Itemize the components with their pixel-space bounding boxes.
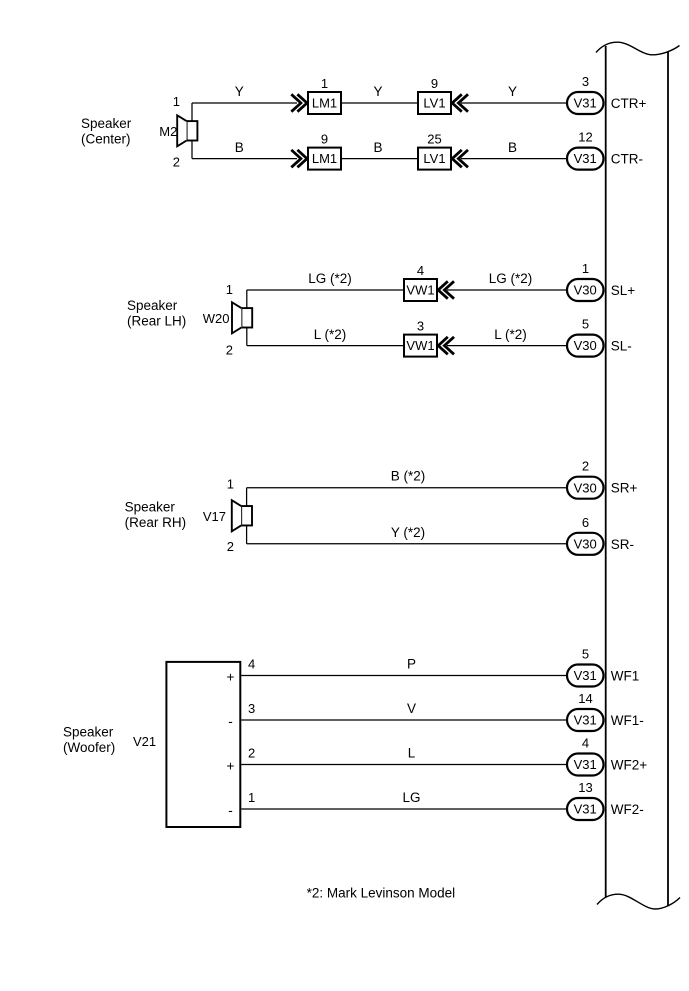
svg-text:-: -	[228, 714, 233, 729]
svg-text:LG: LG	[402, 790, 420, 805]
svg-text:V30: V30	[574, 338, 597, 353]
svg-text:SL-: SL-	[611, 339, 632, 354]
svg-text:WF1-: WF1-	[611, 713, 644, 728]
svg-text:*2: Mark Levinson Model: *2: Mark Levinson Model	[307, 886, 456, 901]
svg-text:V17: V17	[203, 509, 226, 524]
svg-text:LG (*2): LG (*2)	[489, 271, 533, 286]
svg-text:W20: W20	[203, 311, 230, 326]
connector LM1 chevrons (male)	[291, 94, 301, 111]
svg-text:Y (*2): Y (*2)	[391, 525, 425, 540]
svg-text:(Rear LH): (Rear LH)	[127, 314, 186, 329]
W20 pin stem (vertical wire)	[246, 290, 248, 308]
svg-text:+: +	[227, 759, 235, 774]
M2 pin stem (vertical wire)	[191, 103, 193, 121]
svg-text:V31: V31	[574, 96, 597, 111]
wire W20-1 to VW1 (LG)	[247, 289, 403, 291]
amplifier harness left edge line	[605, 46, 607, 897]
svg-text:CTR+: CTR+	[611, 96, 647, 111]
svg-text:1: 1	[226, 282, 233, 297]
svg-text:V31: V31	[574, 668, 597, 683]
svg-text:9: 9	[431, 76, 438, 91]
svg-text:Y: Y	[373, 84, 382, 99]
wire V17-1 to V30 (B)	[247, 487, 566, 489]
connector V31	[567, 709, 604, 731]
wire V17-2 to V30 (Y)	[247, 543, 566, 545]
svg-text:+: +	[227, 670, 235, 685]
svg-text:1: 1	[582, 261, 589, 276]
svg-text:1: 1	[173, 94, 180, 109]
svg-text:2: 2	[173, 155, 180, 170]
connector V31	[567, 92, 604, 114]
svg-text:B (*2): B (*2)	[391, 469, 426, 484]
connector V31	[567, 148, 604, 170]
svg-text:-: -	[228, 803, 233, 818]
connector V30	[567, 335, 604, 357]
svg-text:V31: V31	[574, 757, 597, 772]
svg-text:CTR-: CTR-	[611, 152, 643, 167]
wire V21-4 to V31 (P)	[241, 675, 566, 677]
svg-text:WF2+: WF2+	[611, 758, 647, 773]
speaker M2: voice-coil box	[187, 121, 198, 140]
svg-text:WF1: WF1	[611, 669, 640, 684]
svg-text:B: B	[373, 140, 382, 155]
svg-text:SR+: SR+	[611, 481, 638, 496]
svg-text:WF2-: WF2-	[611, 802, 644, 817]
svg-text:14: 14	[578, 691, 592, 706]
connector VW1	[404, 279, 437, 301]
svg-text:(Center): (Center)	[81, 132, 131, 147]
svg-text:Speaker: Speaker	[125, 499, 176, 514]
connector V30	[567, 533, 604, 555]
wire VW1 to V30 (LG)	[447, 289, 566, 291]
wire M2-2 to LM1 (B)	[192, 158, 297, 160]
svg-text:VW1: VW1	[406, 283, 434, 298]
connector VW1 row2 chevrons (male)	[438, 337, 448, 354]
wire M2-1 to LM1 (Y)	[192, 102, 297, 104]
svg-text:V30: V30	[574, 283, 597, 298]
wire VW1 to V30 (L)	[447, 345, 566, 347]
svg-text:V: V	[407, 701, 416, 716]
svg-text:(Woofer): (Woofer)	[63, 740, 115, 755]
svg-text:5: 5	[582, 647, 589, 662]
svg-text:4: 4	[582, 736, 589, 751]
svg-text:4: 4	[417, 263, 424, 278]
connector V30	[567, 477, 604, 499]
speaker W20: cone	[232, 302, 241, 333]
svg-text:2: 2	[248, 746, 255, 761]
svg-text:1: 1	[227, 477, 234, 492]
woofer speaker V21 (box)	[166, 662, 240, 827]
wire LM1 to LV1 (Y)	[342, 102, 417, 104]
connector V30	[567, 279, 604, 301]
svg-text:L (*2): L (*2)	[314, 327, 347, 342]
connector VW1 chevrons (male)	[438, 281, 448, 298]
svg-text:M2: M2	[159, 124, 177, 139]
connector LM1 row2 chevrons (male)	[291, 150, 301, 167]
svg-text:2: 2	[582, 459, 589, 474]
connector LM1	[308, 148, 341, 170]
wire W20-2 to VW1 (L)	[247, 345, 403, 347]
wire LV1 to V31 (B)	[461, 158, 566, 160]
connector LV1 row2 chevrons (male)	[452, 150, 462, 167]
svg-text:V30: V30	[574, 480, 597, 495]
svg-text:12: 12	[578, 130, 592, 145]
svg-text:Speaker: Speaker	[81, 116, 132, 131]
wire LV1 to V31 (Y)	[461, 102, 566, 104]
connector VW1	[404, 335, 437, 357]
harness torn bottom edge (wave)	[597, 894, 680, 909]
svg-text:SR-: SR-	[611, 537, 634, 552]
svg-text:B: B	[235, 140, 244, 155]
wire V21-3 to V31 (V)	[241, 719, 566, 721]
connector LV1	[418, 148, 451, 170]
svg-text:3: 3	[248, 701, 255, 716]
svg-text:L (*2): L (*2)	[494, 327, 527, 342]
svg-text:Speaker: Speaker	[63, 724, 114, 739]
svg-text:4: 4	[248, 657, 255, 672]
svg-text:L: L	[408, 746, 416, 761]
svg-text:LV1: LV1	[423, 96, 445, 111]
connector V31	[567, 665, 604, 687]
speaker W20: voice-coil box	[241, 308, 252, 327]
svg-text:B: B	[508, 140, 517, 155]
connector LV1 chevrons (male)	[452, 94, 462, 111]
svg-text:SL+: SL+	[611, 283, 636, 298]
svg-text:V31: V31	[574, 151, 597, 166]
V17 pin stem (vertical wire)	[246, 488, 248, 506]
svg-text:5: 5	[582, 317, 589, 332]
svg-text:Y: Y	[508, 84, 517, 99]
svg-text:V30: V30	[574, 536, 597, 551]
svg-text:(Rear RH): (Rear RH)	[125, 515, 187, 530]
connector V31	[567, 798, 604, 820]
svg-text:9: 9	[321, 132, 328, 147]
svg-text:Speaker: Speaker	[127, 298, 178, 313]
speaker V17: cone	[232, 500, 241, 531]
svg-text:2: 2	[226, 343, 233, 358]
svg-text:P: P	[407, 657, 416, 672]
wire V21-2 to V31 (L)	[241, 764, 566, 766]
connector LM1	[308, 92, 341, 114]
svg-text:LG (*2): LG (*2)	[308, 271, 352, 286]
svg-text:1: 1	[321, 76, 328, 91]
svg-text:3: 3	[417, 319, 424, 334]
svg-text:6: 6	[582, 515, 589, 530]
svg-text:VW1: VW1	[406, 338, 434, 353]
amplifier harness right edge line	[667, 52, 669, 906]
svg-text:V31: V31	[574, 802, 597, 817]
connector V31	[567, 754, 604, 776]
harness torn top edge (wave)	[596, 42, 680, 55]
svg-text:25: 25	[427, 132, 441, 147]
svg-text:3: 3	[582, 74, 589, 89]
connector LV1	[418, 92, 451, 114]
svg-text:2: 2	[227, 539, 234, 554]
wire V21-1 to V31 (LG)	[241, 808, 566, 810]
svg-text:Y: Y	[235, 84, 244, 99]
svg-text:LM1: LM1	[312, 151, 337, 166]
svg-text:LV1: LV1	[423, 151, 445, 166]
svg-text:1: 1	[248, 790, 255, 805]
speaker V17: voice-coil box	[241, 506, 252, 525]
svg-text:LM1: LM1	[312, 96, 337, 111]
wire LM1 to LV1 (B)	[342, 158, 417, 160]
svg-text:V21: V21	[133, 734, 156, 749]
svg-text:13: 13	[578, 780, 592, 795]
svg-text:V31: V31	[574, 713, 597, 728]
speaker M2: cone	[177, 115, 186, 146]
